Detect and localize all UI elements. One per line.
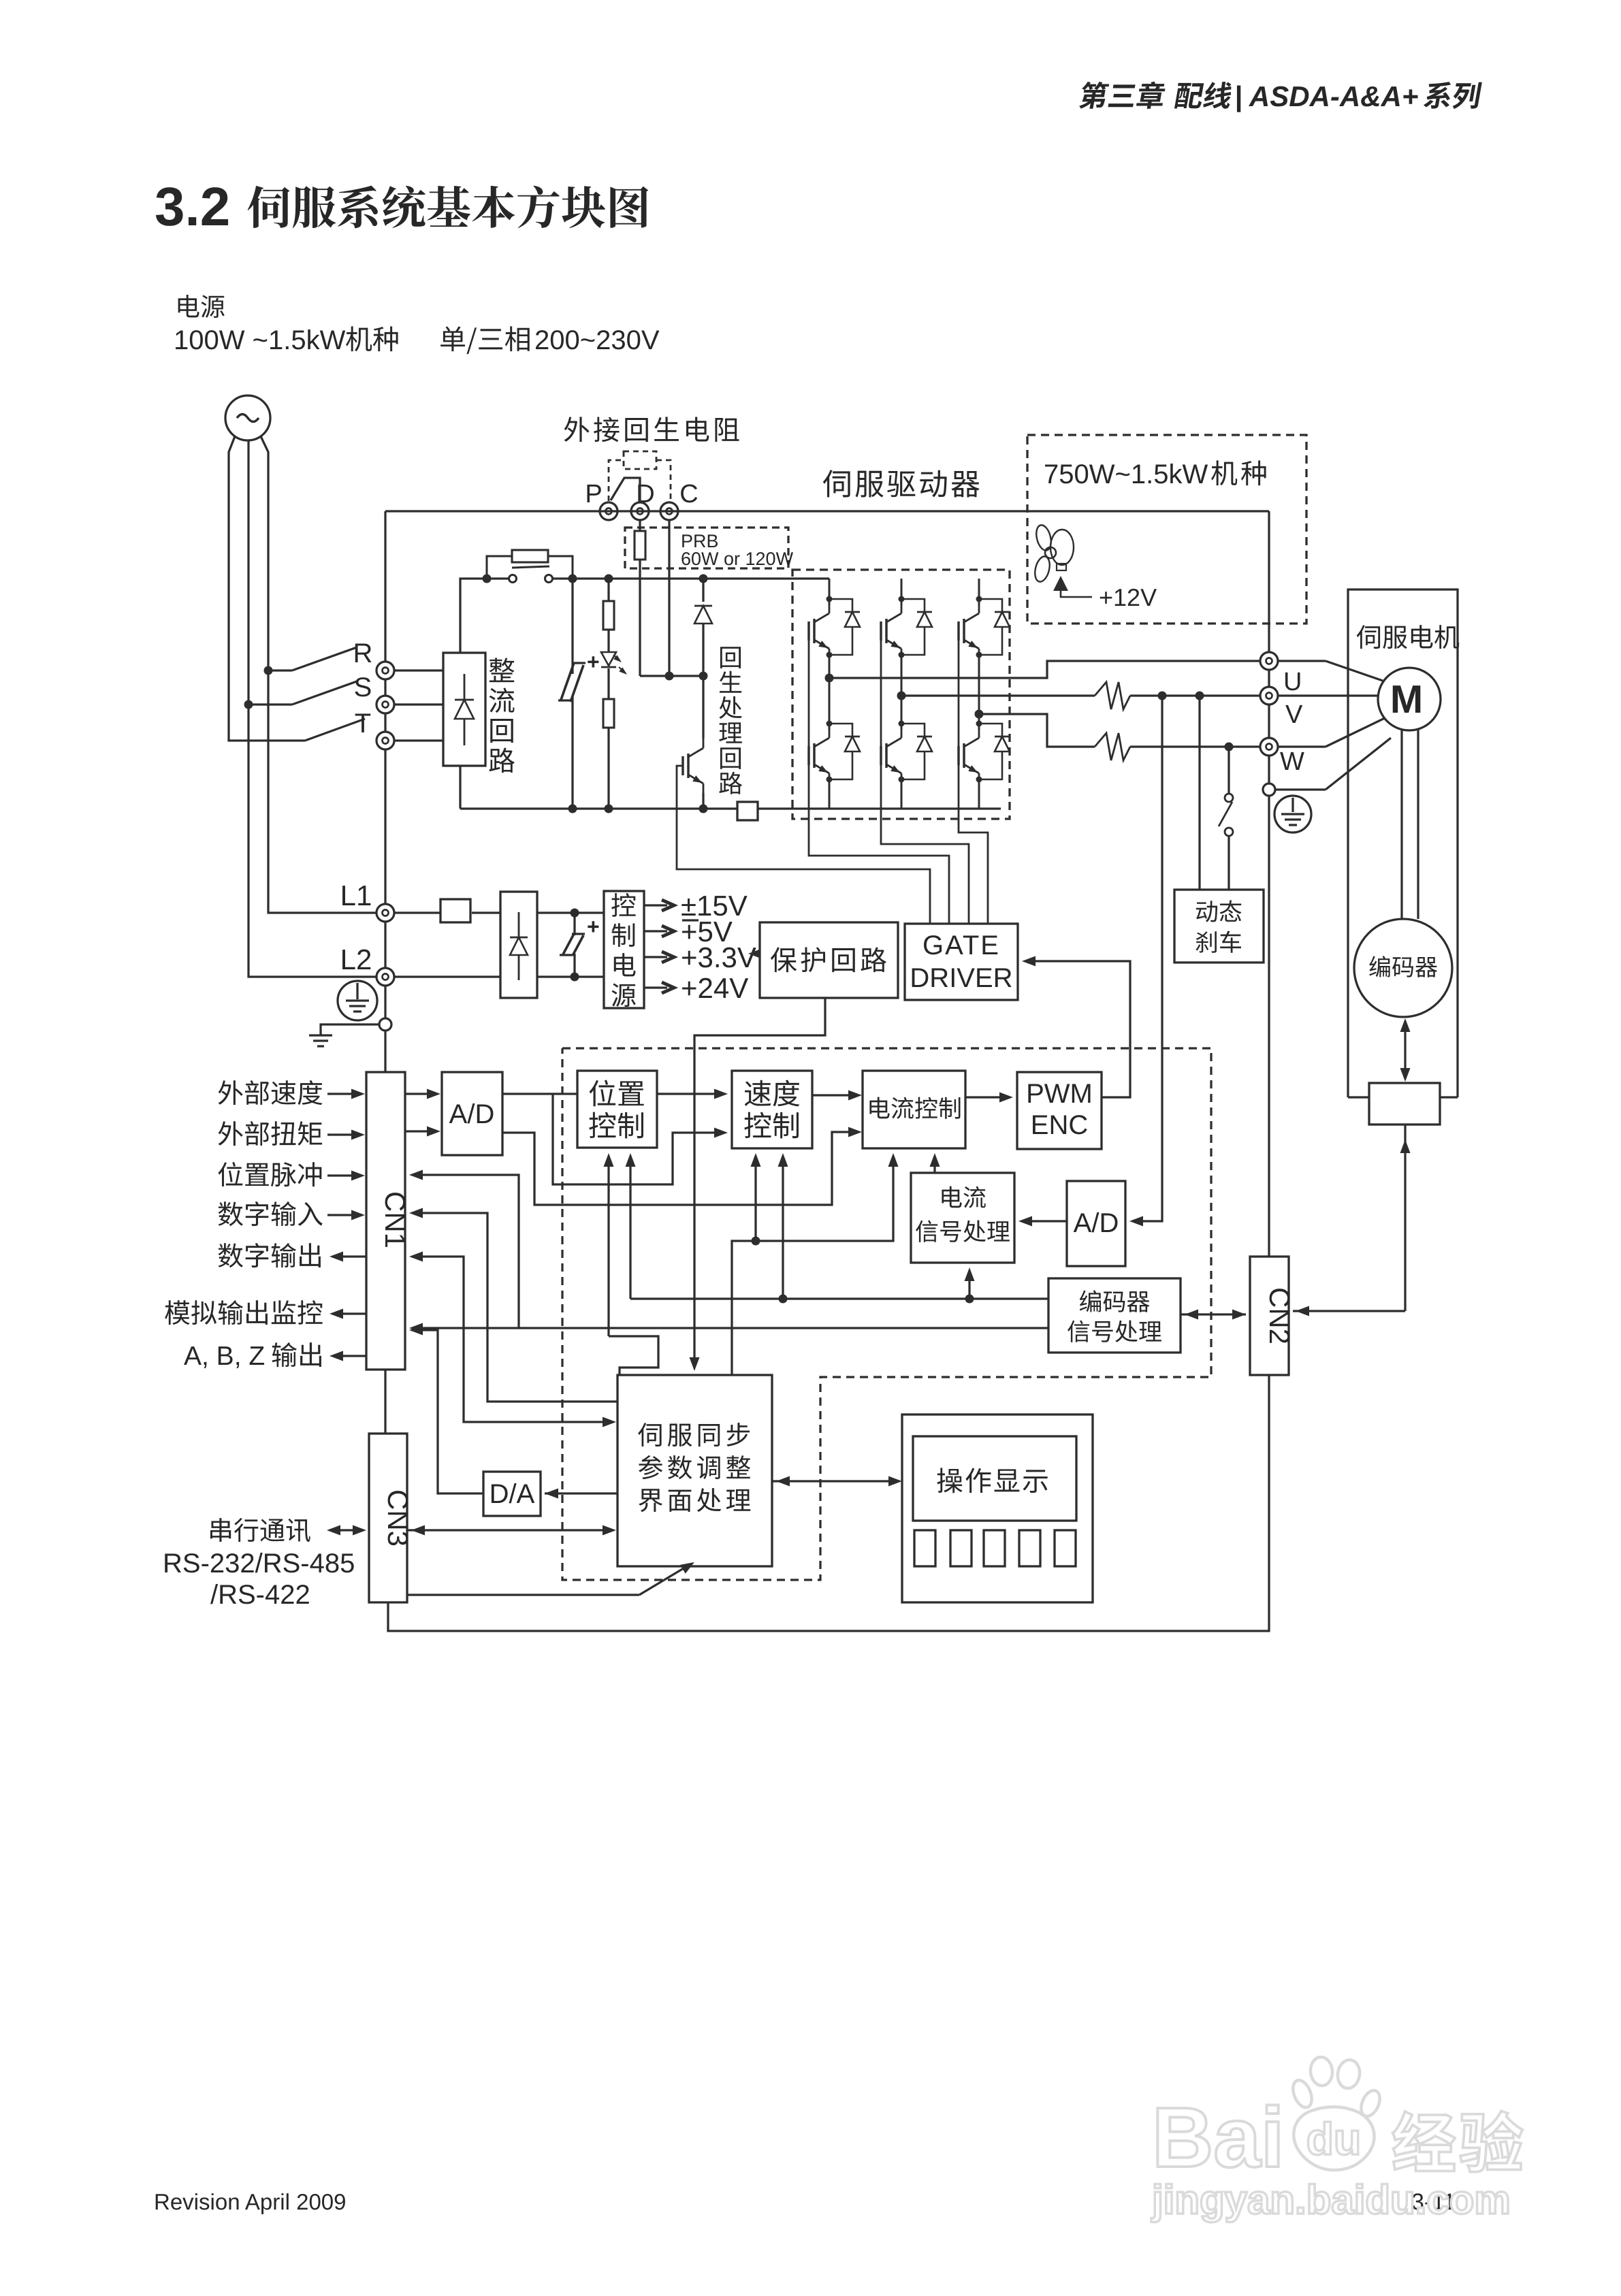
output +5V <box>644 930 667 932</box>
wire interface to D/A <box>545 1492 617 1494</box>
wire speed to current <box>812 1094 858 1096</box>
svg-text:/RS-422: /RS-422 <box>210 1580 310 1610</box>
ground wire down to CN2 <box>1268 796 1270 1257</box>
encoder link double arrow <box>1404 1021 1406 1079</box>
freewheel diode lower 2 <box>901 724 925 736</box>
gate driver box <box>905 924 1018 1000</box>
arrow to protection <box>748 950 759 958</box>
svg-text:D/A: D/A <box>489 1479 535 1509</box>
label serial comm <box>210 1518 231 1542</box>
power spec label <box>178 295 199 317</box>
label 数字输出 <box>219 1243 243 1267</box>
wire CN1 digital out to interface <box>413 1257 612 1422</box>
fan +12V supply <box>1053 576 1068 591</box>
watermark jingyan chars <box>1393 2112 1455 2171</box>
A/D 2 box <box>1067 1181 1125 1266</box>
LED indicator <box>601 652 616 666</box>
freewheel diode lower 1 <box>829 724 852 736</box>
protective earth symbol <box>1274 796 1311 832</box>
svg-text:200~230V: 200~230V <box>534 325 660 355</box>
label 模拟输出监控 <box>165 1300 189 1325</box>
position control box <box>577 1071 657 1148</box>
wire to CN1 <box>384 1031 386 1072</box>
wire 数字输出 <box>334 1255 366 1257</box>
node bus cap <box>568 575 577 583</box>
display screen box <box>913 1436 1076 1521</box>
DC plus bus <box>552 577 829 579</box>
wire 外部扭矩 <box>327 1133 361 1135</box>
freewheel diode upper 3 <box>979 599 1002 611</box>
wire CN1 digital in to interface <box>413 1213 617 1402</box>
IGBT upper leg 2 <box>900 579 902 605</box>
wire PWM to gate driver <box>1026 961 1130 1097</box>
output +3.3V <box>644 956 667 958</box>
wire 位置脉冲 <box>327 1174 361 1176</box>
capacitor control <box>573 913 575 935</box>
PWM ENC box <box>1017 1072 1102 1149</box>
label 位置脉冲 <box>218 1162 242 1186</box>
wire T to rectifier <box>394 739 443 741</box>
svg-text:PWM: PWM <box>1026 1079 1093 1109</box>
wire R tap down to L1 <box>268 670 376 913</box>
node S tap <box>244 700 253 709</box>
phase node 1 <box>825 674 834 683</box>
IGBT upper leg 1 <box>828 579 830 605</box>
terminal C <box>660 502 678 520</box>
D/A box <box>483 1472 541 1516</box>
bleeder resistor lower <box>607 668 609 699</box>
control rectifier box <box>500 892 537 998</box>
watermark paw palm <box>1294 2107 1374 2170</box>
label servo drive <box>823 470 850 497</box>
terminal D <box>631 502 649 520</box>
wire D-C junction row <box>640 675 703 677</box>
regen IGBT <box>702 676 704 739</box>
brake switch <box>1227 747 1230 793</box>
svg-text:S: S <box>354 673 372 702</box>
page header chapter title <box>1078 82 1110 109</box>
terminal S <box>376 696 394 713</box>
label 外部扭矩 <box>218 1121 242 1146</box>
wire CN3 aux to interface bottom <box>407 1594 639 1596</box>
motor shaft <box>1400 730 1402 919</box>
fan symbol <box>1034 523 1054 552</box>
encoder cable to CN2 <box>1404 1125 1406 1311</box>
keypad buttons <box>914 1530 935 1566</box>
bleeder resistor upper <box>607 579 609 601</box>
svg-text:+: + <box>587 914 600 939</box>
shunt resistor on minus bus <box>737 802 758 820</box>
wire current sense to A/D2 <box>1134 696 1162 1221</box>
terminal L2 <box>376 968 394 986</box>
connector CN2 <box>1250 1257 1289 1375</box>
wire current signal to current control <box>933 1157 935 1173</box>
speed control box <box>732 1071 812 1148</box>
wire to speed control bottom <box>754 1157 756 1241</box>
output +24V <box>644 986 667 988</box>
svg-text:L2: L2 <box>340 943 372 975</box>
svg-text:CN2: CN2 <box>1264 1287 1296 1344</box>
node bus bleeder <box>605 575 613 583</box>
fuse L1 <box>394 911 440 913</box>
IGBT upper leg 3 <box>978 579 980 605</box>
svg-text:+24V: +24V <box>681 972 748 1004</box>
connector CN3 <box>369 1434 407 1602</box>
node minus regen <box>699 805 708 813</box>
diode rectifier symbol <box>455 700 474 719</box>
svg-text:3.2: 3.2 <box>155 176 230 237</box>
node speed loop tap <box>752 1237 760 1246</box>
current signal processing box <box>911 1173 1014 1263</box>
dynamic brake box <box>1174 890 1264 963</box>
top bus wire (drive input to U column) <box>385 510 1269 512</box>
label rectifier (vertical) <box>489 658 515 682</box>
svg-text:V: V <box>1285 700 1303 729</box>
IGBT lower leg 1 <box>828 678 830 730</box>
node minus bleeder <box>605 805 613 813</box>
svg-text:Revision April 2009: Revision April 2009 <box>154 2189 347 2214</box>
wire V phase out <box>901 694 1095 696</box>
svg-text:CN3: CN3 <box>382 1489 414 1547</box>
wire A/D2 to current signal <box>1023 1220 1067 1222</box>
svg-text:A, B, Z: A, B, Z <box>184 1342 265 1371</box>
phase node 2 <box>897 692 906 700</box>
svg-text:+: + <box>587 649 600 674</box>
phase node 3 <box>975 710 984 719</box>
wire U phase out <box>829 661 1260 678</box>
wire serial comm double arrow <box>330 1529 364 1531</box>
wire A/D out to position control <box>502 1093 577 1095</box>
resistor PRB internal <box>639 520 641 531</box>
label regen circuit (vertical) <box>720 647 741 668</box>
wire 模拟输出监控 <box>334 1312 366 1314</box>
svg-text:CN1: CN1 <box>379 1191 411 1248</box>
node current fb <box>965 1295 974 1304</box>
inrush bypass resistor <box>487 556 512 579</box>
svg-text:P: P <box>585 480 602 508</box>
svg-text:A/D: A/D <box>1074 1208 1119 1238</box>
connector CN1 <box>366 1072 405 1370</box>
wire A/D out to speed control <box>553 1094 724 1184</box>
wires rectifier2 to cap <box>537 911 604 913</box>
P-D jumper blade <box>611 478 640 502</box>
servo motor box <box>1348 589 1458 1097</box>
terminal P <box>600 502 617 520</box>
PE ground circle <box>338 981 377 1020</box>
watermark paw toes <box>1289 2077 1315 2110</box>
svg-text:L1: L1 <box>340 879 372 911</box>
IGBT inverter bridge dashed box <box>792 570 1010 819</box>
svg-text:+12V: +12V <box>1099 583 1157 611</box>
wire W phase out <box>979 714 1095 747</box>
encoder circle <box>1354 919 1452 1017</box>
protection circuit box <box>760 922 898 998</box>
regen gate wire <box>677 766 930 924</box>
current control box <box>863 1071 965 1148</box>
svg-text:750W~1.5kW: 750W~1.5kW <box>1044 459 1208 489</box>
wire to position control fb <box>629 1157 631 1299</box>
wire S tap down to L2 <box>248 705 376 977</box>
svg-text:W: W <box>1280 747 1304 776</box>
gate wires to gate driver <box>809 636 949 924</box>
wire encoder feedback bus <box>630 1297 1048 1299</box>
wire A/D out2 to current control <box>502 1132 858 1205</box>
wire position to speed <box>657 1093 724 1095</box>
wire V to motor <box>1278 694 1378 696</box>
wire R to rectifier <box>394 669 443 671</box>
earth wire <box>321 1024 379 1035</box>
wire CN1 to A/D ch1 <box>405 1093 436 1095</box>
svg-text:RS-232/RS-485: RS-232/RS-485 <box>163 1549 355 1579</box>
freewheel diode upper 1 <box>829 599 852 611</box>
inrush relay contact <box>509 575 517 583</box>
wire rectifier plus up <box>460 579 509 653</box>
svg-text:100W ~1.5kW: 100W ~1.5kW <box>174 325 346 355</box>
input terminal bus <box>384 511 386 662</box>
encoder signal processing box <box>1048 1278 1181 1353</box>
motor M circle <box>1378 668 1441 730</box>
wire S to rectifier <box>394 703 443 705</box>
freewheel diode upper 2 <box>901 599 925 611</box>
node V current-sense tap <box>1158 692 1167 700</box>
svg-text:U: U <box>1283 668 1302 696</box>
svg-text:T: T <box>355 709 371 739</box>
node inrush left <box>483 575 492 583</box>
wire U to motor <box>1278 660 1326 662</box>
output +-15V <box>644 904 667 906</box>
wire encoder ABZ to CN1 <box>413 1327 1048 1329</box>
ground terminal (open circle) <box>1263 783 1275 796</box>
svg-text:GATE: GATE <box>922 931 1000 960</box>
external regen resistor label <box>564 417 590 442</box>
terminal bus U-V-W <box>1268 670 1270 687</box>
wire C terminal down <box>668 520 670 676</box>
wire protection to interface <box>694 998 825 1365</box>
wire L2 to rectifier2 <box>394 975 500 977</box>
node V brake tap <box>1195 692 1204 700</box>
node regen join <box>699 672 708 681</box>
wire position control cmd legs <box>607 1157 609 1336</box>
wire source to T <box>229 436 289 741</box>
terminal U <box>1260 652 1278 670</box>
IGBT lower leg 3 <box>978 714 980 730</box>
freewheel diode lower 3 <box>979 724 1002 736</box>
svg-text:Bai: Bai <box>1152 2090 1285 2185</box>
node speed fb <box>779 1295 788 1304</box>
control power supply box <box>604 891 644 1008</box>
node bus regen <box>699 575 708 583</box>
servo interface processing box <box>617 1375 772 1566</box>
wire current control to PWM <box>965 1096 1009 1098</box>
wire CN1 to A/D ch2 <box>405 1130 436 1132</box>
rectifier circuit box <box>443 653 485 766</box>
wire A,B,Z output <box>334 1355 366 1357</box>
terminal L1 <box>376 904 394 922</box>
switch T-phase <box>289 739 305 741</box>
svg-text:M: M <box>1390 677 1423 722</box>
terminal W <box>1260 738 1278 756</box>
wire D/A to CN1 <box>413 1330 483 1493</box>
label 数字输入 <box>219 1201 243 1226</box>
node cap2 bottom <box>571 973 579 982</box>
switch S-phase <box>248 703 292 705</box>
wire 数字输入 <box>327 1214 361 1216</box>
wire V tap to brake <box>1198 696 1200 890</box>
svg-text:+3.3V: +3.3V <box>681 941 756 973</box>
label 外部速度 <box>218 1080 242 1105</box>
svg-text:60W or 120W: 60W or 120W <box>681 549 794 569</box>
svg-text:jingyan.baidu.com: jingyan.baidu.com <box>1151 2177 1511 2222</box>
terminal V <box>1260 687 1278 705</box>
node W brake tap <box>1225 743 1234 751</box>
svg-text:R: R <box>353 638 373 668</box>
fuse V phase <box>1095 682 1130 709</box>
terminal R <box>376 662 394 679</box>
wire interface to display <box>772 1480 898 1482</box>
svg-text:A/D: A/D <box>449 1099 495 1129</box>
svg-text:C: C <box>679 480 698 508</box>
AC source <box>225 395 270 440</box>
wire source to S <box>247 440 249 705</box>
wire 外部速度 <box>327 1093 361 1095</box>
wire source to R <box>261 436 268 670</box>
capacitor DC bus <box>571 579 573 674</box>
IGBT lower leg 2 <box>900 696 902 730</box>
svg-text:| ASDA-A&A+: | ASDA-A&A+ <box>1234 80 1418 112</box>
PRB dashed box <box>625 528 788 568</box>
regen diode <box>702 579 704 602</box>
fuse W phase <box>1095 733 1130 760</box>
wire encoder proc to CN2 <box>1181 1313 1246 1315</box>
wire rectifier minus down <box>459 766 461 809</box>
terminal T <box>376 732 394 749</box>
wire CN3 to interface <box>407 1529 613 1531</box>
motor connector box <box>1369 1083 1440 1125</box>
svg-text:du: du <box>1306 2114 1362 2164</box>
svg-text:DRIVER: DRIVER <box>910 963 1012 993</box>
switch R-phase <box>268 669 292 671</box>
node cap2 top <box>571 909 579 918</box>
node C join <box>665 672 674 681</box>
svg-text:ENC: ENC <box>1031 1110 1088 1140</box>
wire CN2 down and left <box>388 1375 1269 1631</box>
wire position pulse CN1 <box>413 1175 519 1328</box>
wire ground to motor <box>1275 788 1326 790</box>
wire DSP to current control gain <box>732 1157 893 1375</box>
DSP dashed boundary <box>562 1048 1211 1580</box>
A/D converter box <box>442 1072 502 1155</box>
node minus cap <box>568 805 577 813</box>
label servo motor <box>1357 625 1380 649</box>
operation display outer box <box>902 1414 1093 1602</box>
external regen resistor (dashed) <box>624 451 656 469</box>
wire W to motor <box>1278 745 1326 747</box>
ground stub open circle <box>384 986 386 1018</box>
wire CN1 to CN3 <box>384 1370 386 1434</box>
750W~1.5kW dashed box <box>1027 435 1306 624</box>
DC minus bus <box>460 807 737 809</box>
node R tap <box>264 666 273 675</box>
wire top bus down to U terminal <box>1268 511 1270 652</box>
